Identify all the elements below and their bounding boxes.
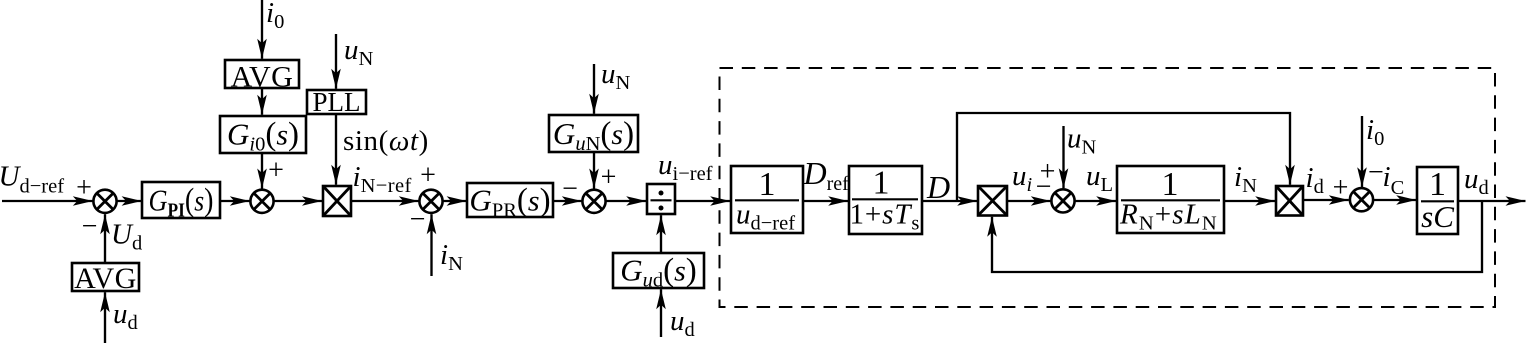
wire S1 to G_PI [117, 200, 142, 202]
wire M1 to S3 [351, 200, 419, 202]
block 1/sC [1417, 166, 1458, 234]
wire i0 input to AVG [261, 0, 263, 59]
wire ud input to G_ud [660, 289, 662, 337]
block 1/(RN+sLN) [1117, 166, 1224, 235]
wire AVG bottom to S1 [104, 214, 106, 263]
summing junction S3 [419, 190, 442, 213]
wire 1/ud-ref to 1/(1+sTs) [803, 200, 848, 202]
svg-text:PLL: PLL [312, 87, 360, 117]
wire i0 input to S6 [1361, 116, 1363, 187]
wire S3 to G_PR [443, 200, 467, 202]
wire ud input to AVG bottom [104, 292, 106, 343]
svg-text:1+sTs: 1+sTs [850, 199, 921, 235]
block 1/u_d-ref [731, 166, 803, 235]
wire divider to 1/ud-ref [675, 200, 730, 202]
wire D to M2 [922, 200, 977, 202]
block G_ud(s) [613, 253, 704, 292]
svg-text:sin(ωt): sin(ωt) [343, 125, 429, 157]
wire RL to M3 [1224, 200, 1275, 202]
wire AVG to G_i0 [261, 88, 263, 115]
wire ud feedback to M2 [992, 201, 1482, 272]
svg-text:AVG: AVG [74, 262, 137, 295]
wire M2 to S5 [1007, 200, 1051, 202]
block AVG top [225, 60, 299, 94]
summing junction S2 [250, 190, 273, 213]
summing junction S4 [582, 190, 605, 213]
svg-text:1: 1 [1429, 166, 1446, 203]
multiplier M1 [323, 186, 351, 216]
wire S5 to RL block [1075, 200, 1117, 202]
wire G_i0 to S2 [261, 153, 263, 189]
multiplier M2 [978, 186, 1007, 216]
wire output ud [1458, 200, 1526, 202]
block AVG bottom [72, 262, 139, 295]
block G_PR(s) [467, 183, 553, 222]
block PLL [307, 87, 366, 117]
wire PLL to M1 [335, 114, 337, 185]
svg-text:−: − [1368, 157, 1384, 188]
multiplier M3 [1276, 186, 1303, 216]
svg-text:+: + [420, 160, 436, 191]
svg-text:D: D [926, 169, 950, 205]
block G_i0(s) [220, 116, 306, 156]
wire G_uN to S4 [593, 152, 595, 189]
summing junction S1 [93, 190, 116, 213]
wire uN input to S5 [1062, 126, 1064, 188]
dashed plant boundary box [720, 68, 1496, 307]
svg-text:1: 1 [759, 166, 776, 203]
wire iN input to S3 [430, 214, 432, 276]
wire M3 to S6 [1303, 199, 1349, 201]
svg-text:+: + [76, 173, 92, 204]
wire main input to S1 [2, 200, 93, 202]
svg-text:−: − [1036, 172, 1052, 203]
wire G_PI to S2 [220, 200, 250, 202]
svg-text:+: + [1333, 173, 1349, 204]
wire uN input to G_uN [593, 64, 595, 114]
svg-text:+: + [601, 162, 617, 193]
wire D branch to M3 [957, 113, 1290, 201]
svg-text:−: − [562, 174, 578, 205]
summing junction S5 [1051, 189, 1074, 212]
wire G_ud to divider [660, 215, 662, 253]
block G_uN(s) [549, 115, 638, 155]
svg-text:−: − [410, 204, 426, 235]
svg-text:1: 1 [873, 165, 890, 202]
svg-text:1: 1 [1162, 166, 1179, 203]
wire uN input to PLL [335, 34, 337, 89]
wire S4 to divider [606, 200, 647, 202]
svg-text:sC: sC [1421, 199, 1454, 234]
summing junction S6 [1350, 188, 1373, 211]
block G_PI(s) [142, 182, 220, 222]
wire S6 to 1/sC [1373, 199, 1416, 201]
svg-text:−: − [82, 211, 98, 242]
block 1/(1+sTs) [849, 165, 922, 235]
wire S2 to M1 [274, 200, 322, 202]
divider block [647, 184, 675, 214]
wire G_PR to S4 [553, 200, 582, 202]
svg-text:+: + [268, 155, 284, 186]
